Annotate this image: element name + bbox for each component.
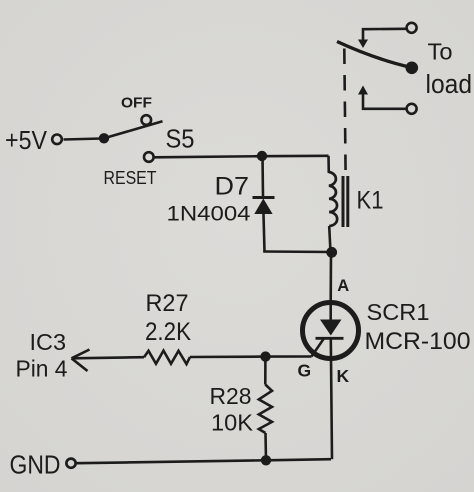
relay contact top NC terminal circle xyxy=(407,23,417,33)
relay coil K1 core bar left xyxy=(342,176,345,227)
SCR1 internal anode lead xyxy=(329,302,332,320)
switch S5 arm xyxy=(104,121,163,138)
arrowhead to IC3 Pin 4 xyxy=(72,350,90,372)
SCR1 gate slant lead xyxy=(312,338,325,356)
+5V terminal xyxy=(52,135,62,145)
svg-text:R27: R27 xyxy=(146,290,189,317)
wire IC3 to R27 xyxy=(72,357,145,358)
svg-text:10K: 10K xyxy=(211,410,253,436)
wire bottom rail D7 to coil node xyxy=(263,250,332,253)
relay contact bottom NO terminal circle xyxy=(407,104,417,114)
junction dot coil bottom / anode node xyxy=(326,247,337,258)
relay coil K1 winding xyxy=(329,172,337,226)
svg-text:load: load xyxy=(426,71,473,99)
arrowhead top contact pointing down xyxy=(358,40,368,49)
wire D7 anode branch vertical top xyxy=(261,156,264,197)
resistor R27 zigzag xyxy=(144,351,190,365)
wire gate horizontal xyxy=(265,355,312,358)
svg-text:A: A xyxy=(337,277,349,295)
wire bottom NO contact xyxy=(363,94,406,109)
SCR1 triangle xyxy=(320,320,342,336)
svg-text:GND: GND xyxy=(10,452,61,480)
svg-text:IC3: IC3 xyxy=(30,329,67,355)
svg-text:G: G xyxy=(298,361,312,381)
wire coil top vertical xyxy=(327,156,330,173)
relay coil K1 core bar right xyxy=(346,176,349,227)
wire GND rail xyxy=(76,459,331,463)
wire +5V terminal to switch common xyxy=(64,139,103,140)
svg-text:K1: K1 xyxy=(357,187,384,215)
wire R27 to gate junction xyxy=(190,355,266,358)
junction dot gate / R27 / R28 xyxy=(260,351,270,361)
wire top NC contact xyxy=(363,29,406,41)
dashed mechanical link to K1 xyxy=(344,49,345,175)
svg-text:OFF: OFF xyxy=(121,95,152,112)
svg-text:S5: S5 xyxy=(166,124,195,154)
SCR1 cathode bar xyxy=(316,337,344,340)
svg-text:D7: D7 xyxy=(215,173,250,201)
svg-text:1N4004: 1N4004 xyxy=(167,203,251,226)
wire SCR cathode down to GND rail xyxy=(331,338,332,459)
switch S5 common junction dot xyxy=(99,133,109,143)
wire D7 bottom vertical xyxy=(264,214,265,252)
svg-text:K: K xyxy=(337,366,350,386)
svg-text:SCR1: SCR1 xyxy=(367,299,430,325)
svg-text:MCR-100: MCR-100 xyxy=(365,328,471,355)
switch S5 OFF contact xyxy=(142,115,152,125)
node junction dot at D7 top xyxy=(257,151,267,161)
svg-text:2.2K: 2.2K xyxy=(145,318,191,346)
wire coil bottom vertical xyxy=(329,226,330,252)
switch S5 RESET contact xyxy=(144,152,154,162)
SCR1 body circle xyxy=(303,303,359,359)
svg-text:R28: R28 xyxy=(210,383,252,409)
svg-text:Pin 4: Pin 4 xyxy=(16,356,68,382)
wire SCR anode xyxy=(329,252,332,302)
diode D7 triangle xyxy=(254,199,272,215)
resistor R28 zigzag xyxy=(259,385,272,434)
junction dot GND / R28 xyxy=(261,455,271,465)
diode D7 cathode bar xyxy=(253,196,275,199)
svg-text:To: To xyxy=(428,39,453,65)
relay common contact dot xyxy=(406,62,419,75)
svg-text:+5V: +5V xyxy=(5,125,48,155)
wire RESET contact to coil top rail xyxy=(154,156,328,158)
GND terminal xyxy=(66,459,75,468)
relay armature xyxy=(337,42,412,68)
arrowhead bottom contact pointing up xyxy=(358,86,368,95)
wire R28 bottom vertical xyxy=(264,433,267,460)
wire R28 top vertical xyxy=(264,357,267,385)
svg-text:RESET: RESET xyxy=(104,168,157,188)
